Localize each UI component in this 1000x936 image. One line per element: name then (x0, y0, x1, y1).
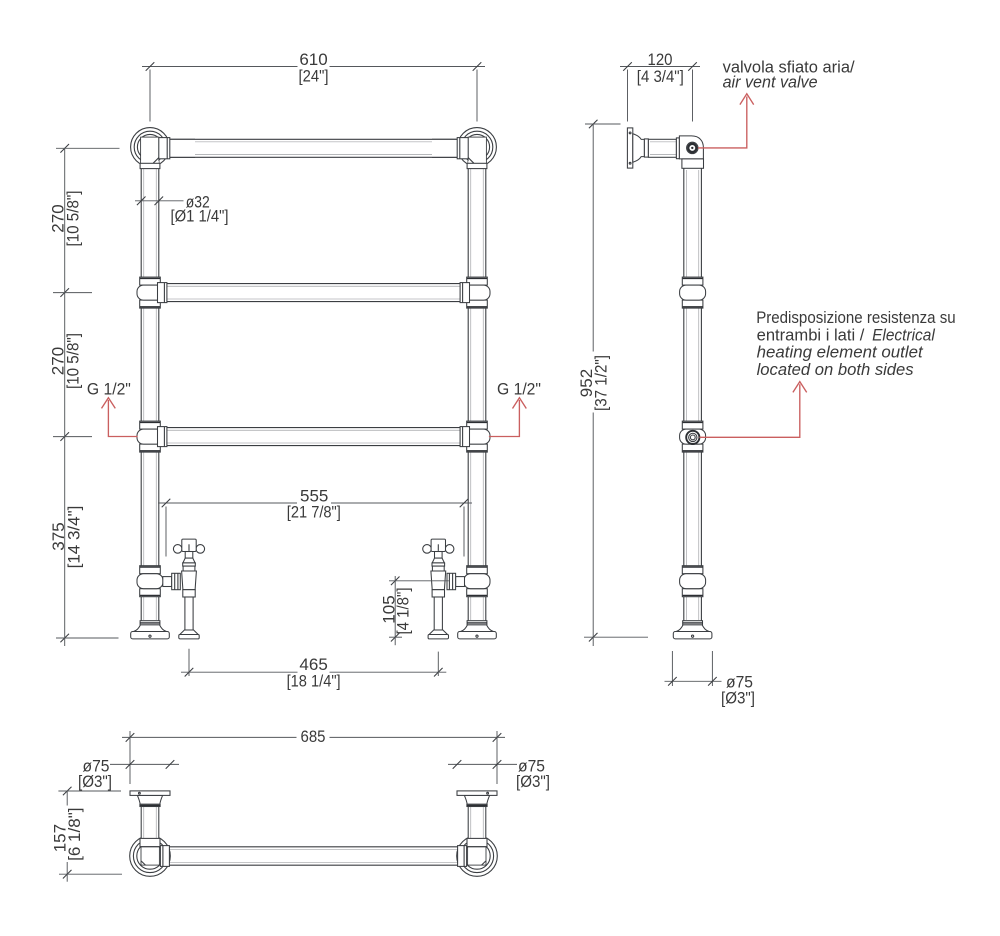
svg-text:air vent valve: air vent valve (723, 72, 818, 91)
svg-text:heating element outlet: heating element outlet (757, 343, 924, 362)
svg-text:G 1/2": G 1/2" (87, 380, 131, 399)
svg-text:[6 1/8"]: [6 1/8"] (65, 808, 84, 861)
svg-text:[14 3/4"]: [14 3/4"] (64, 506, 83, 569)
svg-text:[10 5/8"]: [10 5/8"] (64, 333, 83, 389)
svg-text:Electrical: Electrical (872, 325, 936, 344)
svg-text:[37 1/2"]: [37 1/2"] (592, 355, 611, 411)
svg-text:[4 1/8"]: [4 1/8"] (394, 588, 413, 635)
svg-text:[18 1/4"]: [18 1/4"] (287, 671, 341, 690)
svg-text:[24"]: [24"] (299, 67, 329, 86)
svg-text:[Ø3"]: [Ø3"] (78, 772, 112, 791)
svg-text:G 1/2": G 1/2" (497, 380, 541, 399)
svg-text:[Ø1 1/4"]: [Ø1 1/4"] (171, 207, 229, 226)
svg-text:entrambi i lati /: entrambi i lati / (757, 325, 865, 344)
svg-text:Predisposizione resistenza su: Predisposizione resistenza su (756, 308, 956, 327)
svg-text:[10 5/8"]: [10 5/8"] (64, 191, 83, 247)
svg-text:685: 685 (301, 727, 326, 746)
svg-text:[Ø3"]: [Ø3"] (721, 688, 755, 707)
svg-text:located on both sides: located on both sides (757, 360, 914, 379)
svg-text:[Ø3"]: [Ø3"] (516, 772, 550, 791)
svg-text:[21 7/8"]: [21 7/8"] (287, 503, 341, 522)
svg-text:[4 3/4"]: [4 3/4"] (637, 67, 684, 86)
